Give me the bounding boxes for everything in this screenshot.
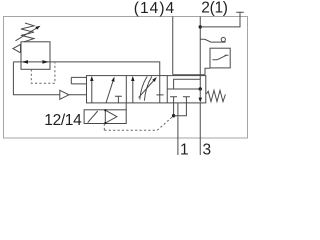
wire port 4 line — [172, 17, 174, 75]
wire triangle to valve — [69, 94, 87, 96]
regulator vent triangle — [13, 44, 21, 52]
pressure switch box — [210, 48, 230, 68]
poppet blocked port T left — [170, 97, 177, 103]
poppet section flow line — [167, 88, 200, 90]
valve position B blocked port T — [156, 95, 163, 103]
wire port 2 line — [199, 17, 201, 80]
junction node port 2 — [199, 25, 202, 28]
wire T3 to junction — [173, 103, 175, 116]
junction node poppet — [199, 87, 202, 90]
valve position A diagonal flow arrow — [106, 77, 114, 103]
enclosure boundary — [4, 17, 248, 139]
throttle restriction arcs — [140, 76, 152, 100]
poppet exhaust down arrow — [199, 89, 203, 103]
pilot bridge bracket left of valve — [71, 77, 86, 84]
wire switch box to valve — [205, 68, 210, 75]
svg-text:1: 1 — [180, 141, 189, 155]
valve position A straight flow arrow — [90, 76, 93, 103]
poppet section bypass loop — [174, 79, 201, 89]
regulator spring — [21, 23, 34, 42]
wire pilot valve to main valve — [125, 103, 127, 110]
pressure switch roller circle — [221, 37, 225, 41]
regulator flow line to valve — [13, 62, 159, 95]
valve position A blocked port T — [115, 96, 122, 103]
pilot valve triangle — [105, 110, 117, 123]
throttle adjustment arrow — [139, 77, 157, 98]
main valve body — [87, 76, 206, 103]
regulator adjustment arrow — [16, 26, 41, 41]
wire port 1 line — [177, 103, 179, 155]
check amplifier triangle — [60, 90, 69, 99]
wire junction to T4 — [174, 103, 187, 116]
regulator flow arrow right — [42, 60, 48, 64]
wire from regulator down to supply branch — [13, 62, 59, 95]
wire to terminal — [200, 12, 244, 27]
regulator pilot sensing line (dashed) — [31, 62, 55, 83]
valve divider 2 — [166, 76, 168, 103]
valve position B straight flow arrow — [131, 76, 134, 103]
pilot control line (dashed) — [104, 117, 172, 131]
pressure regulator body — [21, 42, 50, 70]
return spring — [206, 90, 225, 101]
svg-text:3: 3 — [203, 141, 212, 155]
pilot valve piston diagonal — [88, 111, 98, 123]
pilot triangle junction dots — [104, 109, 106, 111]
pressure switch contact — [212, 55, 228, 60]
pressure switch actuator link — [200, 39, 225, 42]
svg-text:2(1): 2(1) — [201, 0, 228, 17]
wire above valve — [173, 74, 205, 76]
svg-text:(14)4: (14)4 — [134, 0, 175, 17]
poppet blocked port T right — [183, 97, 190, 103]
svg-text:12/14: 12/14 — [44, 112, 82, 129]
pilot valve triangle base — [104, 110, 106, 124]
wire port 3 line — [199, 103, 201, 155]
junction node pilot tap — [172, 114, 175, 117]
regulator flow arrow left — [22, 60, 28, 64]
pilot valve body 12/14 — [84, 110, 126, 124]
valve divider 1 — [125, 76, 127, 103]
